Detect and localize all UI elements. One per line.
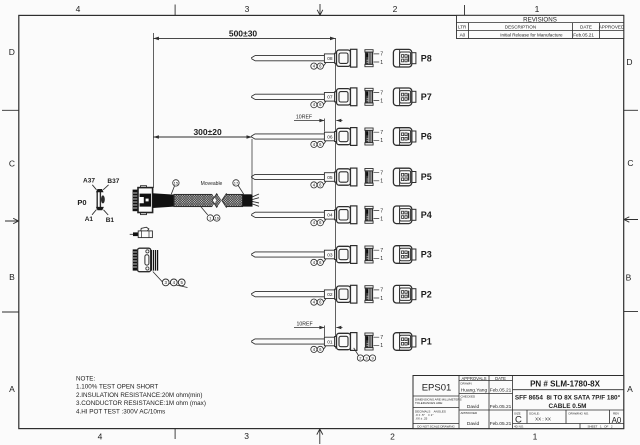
svg-text:04: 04	[327, 213, 333, 219]
svg-text:3: 3	[244, 431, 249, 441]
svg-text:300±20: 300±20	[193, 127, 222, 137]
connector P6 front view	[393, 128, 416, 146]
connector P3 side view	[335, 246, 357, 264]
center arrow top	[317, 4, 323, 15]
connector P5 side view	[335, 168, 357, 186]
svg-text:A0: A0	[612, 416, 622, 425]
center arrow bottom	[317, 429, 323, 444]
callout 1 16	[201, 207, 220, 221]
svg-text:05: 05	[327, 175, 333, 181]
connector P5 front view	[393, 168, 416, 186]
svg-text:P5: P5	[421, 172, 432, 182]
row P4	[251, 206, 432, 226]
svg-text:DRAWN: DRAWN	[461, 381, 472, 385]
connector P1 front view	[393, 333, 416, 351]
svg-text:A0: A0	[460, 33, 466, 38]
callout bubbles P6	[311, 141, 326, 147]
svg-text:DESCRIPTION: DESCRIPTION	[505, 25, 536, 30]
svg-text:P0: P0	[77, 198, 86, 207]
connector P2 front view	[393, 285, 416, 303]
marker label 04	[324, 211, 335, 220]
wire to P2	[251, 292, 324, 297]
svg-text:10REF: 10REF	[296, 114, 312, 120]
zone tick 2/1 top	[464, 5, 466, 15]
svg-text:4.HI POT TEST :300V AC/10ms: 4.HI POT TEST :300V AC/10ms	[76, 408, 165, 415]
connector P3 front view	[393, 246, 416, 264]
connector P7 pin view	[365, 88, 383, 105]
note text	[76, 376, 206, 416]
marker label 07	[324, 93, 335, 102]
svg-text:1: 1	[533, 432, 538, 442]
wire to P4	[251, 212, 324, 217]
svg-text:08: 08	[327, 56, 333, 62]
callout bubbles P7	[311, 101, 326, 107]
svg-text:1.100% TEST OPEN SHORT: 1.100% TEST OPEN SHORT	[76, 384, 158, 391]
svg-text:A1: A1	[85, 216, 94, 223]
svg-text:P7: P7	[421, 92, 432, 102]
dimension 300±20	[153, 127, 252, 194]
cable boot	[153, 193, 174, 208]
connector P8 front view	[393, 49, 416, 67]
marker label 03	[324, 250, 335, 259]
callout bubbles P3	[311, 259, 326, 265]
callout 2 3 9 under P1	[354, 348, 376, 361]
svg-text:Feb.05.21: Feb.05.21	[490, 421, 512, 427]
svg-text:C: C	[9, 159, 15, 169]
svg-text:P1: P1	[421, 337, 432, 347]
marker label 02	[324, 290, 335, 299]
marker label 06	[324, 132, 335, 141]
connector P0 top view	[130, 227, 153, 237]
zone tick D/C right	[624, 109, 638, 111]
callout bubbles P1	[311, 346, 326, 352]
connector P2 pin view	[365, 286, 383, 303]
svg-text:DO NOT SCALE DRAWING: DO NOT SCALE DRAWING	[417, 424, 455, 428]
svg-text:PN # SLM-1780-8X: PN # SLM-1780-8X	[530, 380, 600, 389]
cable trunk braid	[174, 193, 243, 208]
row P1	[251, 333, 432, 362]
wire to P6	[251, 134, 324, 139]
wire to P8	[251, 56, 324, 61]
svg-text:LTR: LTR	[458, 25, 467, 30]
dimension 10REF top	[294, 114, 343, 131]
cable split end	[253, 194, 260, 206]
svg-text:D: D	[9, 47, 15, 57]
svg-text:APPROVED: APPROVED	[461, 411, 479, 415]
connector P8 pin view	[365, 50, 383, 67]
svg-text:CABLE 0.5M: CABLE 0.5M	[549, 403, 587, 410]
zone tick 4/3 top	[174, 5, 176, 16]
dimension 500±30	[153, 29, 335, 349]
revisions table	[457, 15, 625, 38]
connector P8 side view	[335, 49, 357, 67]
callout bubbles P8	[311, 63, 326, 69]
row P5	[251, 168, 432, 188]
svg-text:B: B	[9, 272, 15, 282]
zone tick D/C left	[2, 109, 19, 111]
svg-text:SCALE:: SCALE:	[529, 412, 540, 416]
svg-text:SFF 8654 8i TO 8X SATA 7P/F 1: SFF 8654 8i TO 8X SATA 7P/F 180°	[515, 394, 621, 402]
svg-text:16: 16	[215, 216, 220, 221]
callout 3 4 5	[153, 272, 188, 288]
connector P0 side view	[133, 186, 153, 215]
svg-text:.XX ± .25: .XX ± .25	[415, 417, 428, 421]
connector P4 side view	[335, 206, 357, 224]
connector P6 pin view	[365, 128, 383, 145]
callout bubbles P2	[311, 299, 326, 305]
svg-text:DRAWING NO.: DRAWING NO.	[569, 412, 590, 416]
row P6	[251, 128, 432, 148]
svg-text:Feb.05.21: Feb.05.21	[490, 404, 512, 410]
svg-text:David: David	[467, 404, 480, 410]
svg-text:David: David	[467, 421, 480, 427]
connector P7 side view	[335, 88, 357, 106]
wire to P5	[251, 174, 324, 179]
svg-text:2: 2	[390, 432, 395, 442]
svg-text:2.INSULATION RESISTANCE:20M oh: 2.INSULATION RESISTANCE:20M ohm(min)	[76, 392, 202, 399]
svg-text:Moveable: Moveable	[201, 181, 223, 187]
svg-text:4: 4	[76, 4, 81, 14]
svg-text:REVISIONS: REVISIONS	[523, 17, 557, 24]
zone tick B/A left	[2, 311, 19, 313]
svg-text:01: 01	[327, 339, 333, 345]
center arrow right	[624, 217, 638, 222]
svg-text:03: 03	[327, 252, 333, 258]
connector P1 pin view	[365, 333, 383, 350]
zone tick B/A right	[624, 311, 638, 313]
svg-text:CHECKED: CHECKED	[461, 395, 477, 399]
svg-text:P3: P3	[421, 250, 432, 260]
svg-text:B37: B37	[107, 178, 119, 185]
marker label 08	[324, 54, 335, 63]
svg-text:15: 15	[174, 181, 179, 186]
svg-text:TOLERANCES ARE:: TOLERANCES ARE:	[415, 401, 443, 405]
svg-text:A: A	[627, 384, 633, 394]
svg-text:DATE: DATE	[580, 25, 592, 30]
svg-text:4D NO.: 4D NO.	[514, 424, 524, 428]
svg-text:3: 3	[245, 4, 250, 14]
wire to P7	[251, 94, 324, 99]
svg-text:02: 02	[327, 292, 333, 298]
connector P3 pin view	[365, 246, 383, 263]
marker label 05	[324, 173, 335, 182]
callout bubbles P5	[311, 182, 326, 188]
svg-text:A37: A37	[83, 178, 95, 185]
svg-text:A: A	[9, 384, 15, 394]
svg-text:B: B	[626, 273, 632, 283]
connector P5 pin view	[365, 169, 383, 186]
wire to P1	[251, 339, 324, 344]
connector P4 pin view	[365, 206, 383, 223]
svg-text:XX : XX: XX : XX	[535, 417, 551, 422]
row P8	[251, 49, 432, 69]
center arrow left	[5, 218, 19, 223]
svg-text:B1: B1	[106, 217, 115, 224]
svg-text:SHEET 1 OF 2: SHEET 1 OF 2	[587, 424, 612, 428]
svg-text:Feb.05.21: Feb.05.21	[573, 33, 594, 38]
row P3	[251, 246, 432, 266]
svg-text:D: D	[626, 57, 632, 67]
svg-text:1: 1	[535, 4, 540, 14]
svg-text:P2: P2	[421, 289, 432, 299]
svg-text:Feb.05.21: Feb.05.21	[490, 387, 512, 393]
connector P4 front view	[393, 206, 416, 224]
svg-text:P6: P6	[421, 132, 432, 142]
title block	[413, 376, 624, 429]
svg-text:Initial Release for Manufactur: Initial Release for Manufacture	[500, 33, 563, 38]
connector P0 face view	[133, 248, 159, 272]
svg-text:P4: P4	[421, 210, 432, 220]
svg-text:07: 07	[327, 95, 333, 101]
row P7	[251, 88, 432, 108]
cable end band	[243, 194, 253, 206]
wire to P3	[251, 252, 324, 257]
row P2	[251, 285, 432, 305]
zone tick 4/3 bottom	[174, 429, 176, 439]
callout 15	[171, 180, 179, 195]
connector P7 front view	[393, 88, 416, 106]
svg-text:4: 4	[98, 432, 103, 442]
svg-text:2: 2	[393, 4, 398, 14]
svg-text:10REF: 10REF	[297, 321, 313, 327]
marker label 01	[324, 337, 335, 346]
svg-text:500±30: 500±30	[229, 29, 258, 39]
svg-text:C: C	[627, 158, 633, 168]
svg-text:Huang.Yang: Huang.Yang	[461, 387, 488, 393]
dimension 10REF bottom	[294, 321, 343, 337]
connector P6 side view	[335, 128, 357, 146]
svg-text:APPROVED: APPROVED	[599, 25, 625, 30]
callout moveable 17	[201, 180, 244, 195]
connector P2 side view	[335, 285, 357, 303]
connector P1 side view	[335, 333, 357, 351]
svg-text:17: 17	[234, 181, 239, 186]
svg-text:EPS01: EPS01	[422, 383, 452, 394]
svg-text:06: 06	[327, 134, 333, 140]
svg-text:NOTE:: NOTE:	[76, 376, 95, 383]
callout bubbles P4	[311, 219, 326, 225]
connector P0 front view	[77, 178, 119, 224]
svg-text:P8: P8	[421, 53, 432, 63]
svg-text:3.CONDUCTOR RESISTANCE:1M ohm: 3.CONDUCTOR RESISTANCE:1M ohm (max)	[76, 400, 206, 407]
svg-text:DATE: DATE	[495, 376, 506, 381]
